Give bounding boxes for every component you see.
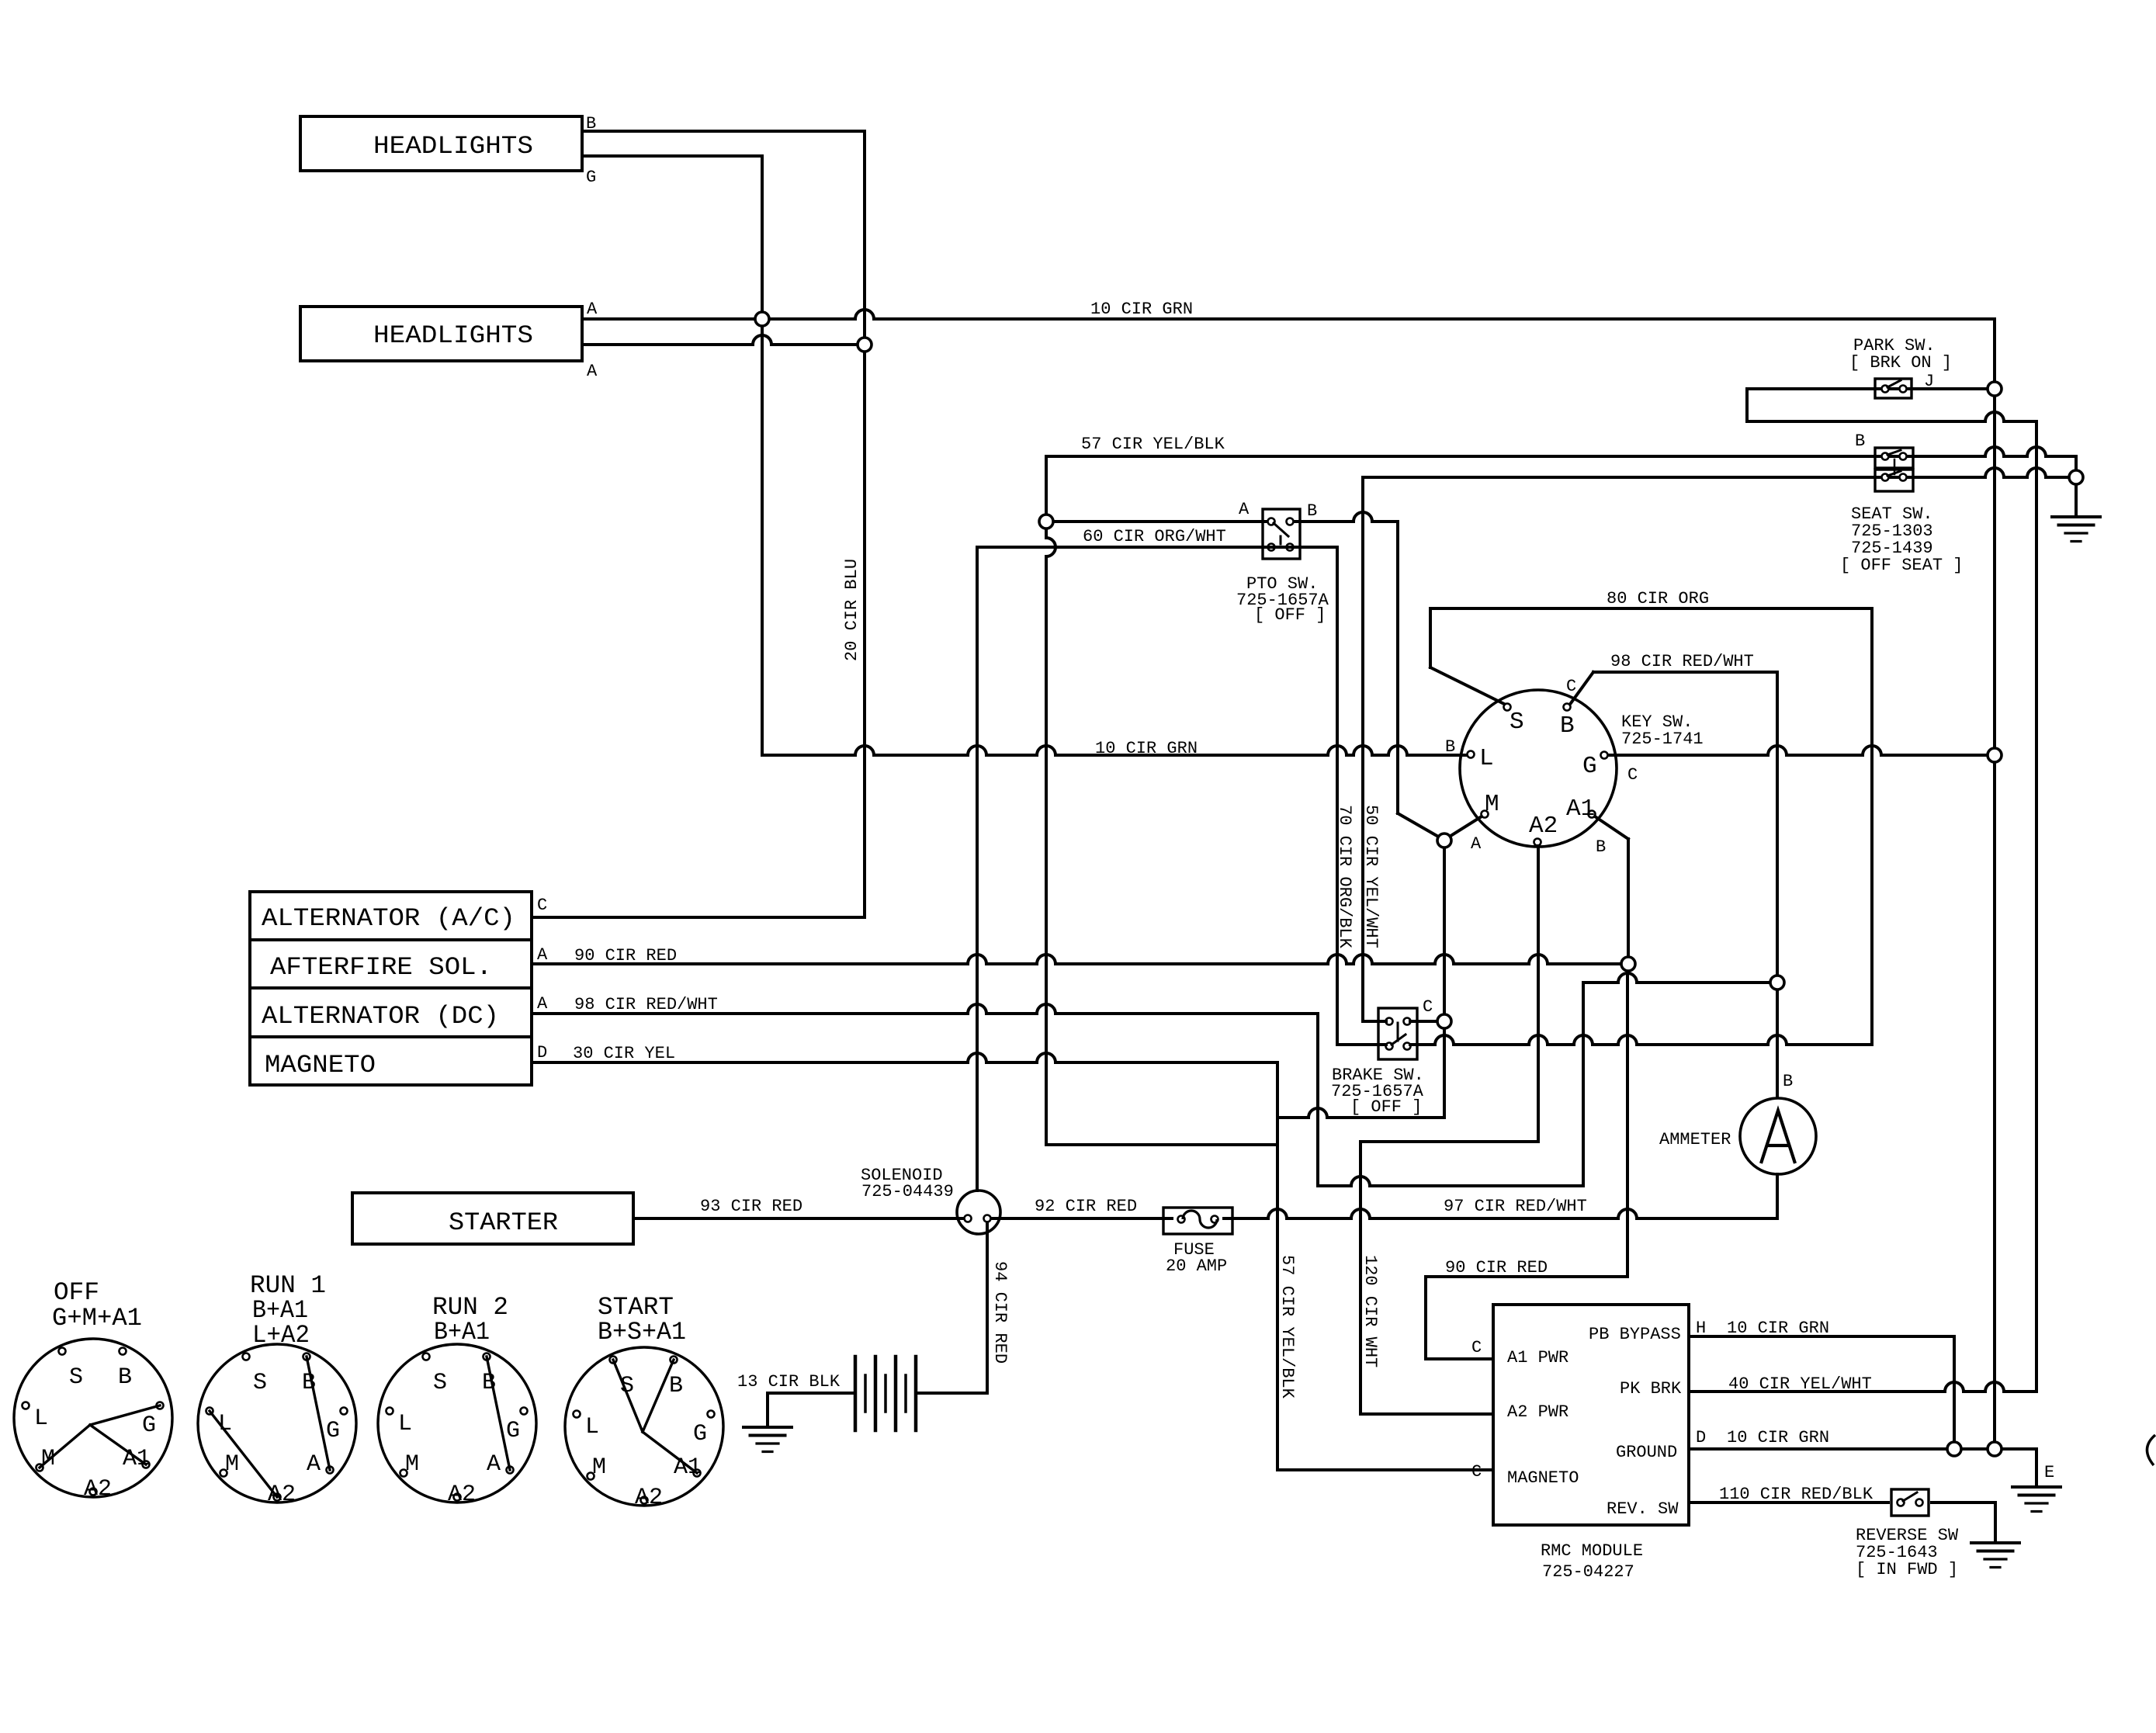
svg-text:L: L	[218, 1411, 232, 1437]
label OFF	[54, 1278, 99, 1307]
wire vertical park return to PK BRK 40 line	[2035, 421, 2038, 1392]
wire 90 CIR RED rmc elbow	[1426, 1277, 1493, 1359]
label B (PTO)	[1307, 501, 1317, 521]
label H	[1696, 1319, 1706, 1338]
svg-text:L: L	[585, 1414, 599, 1440]
svg-text:50 CIR YEL/WHT: 50 CIR YEL/WHT	[1361, 805, 1381, 948]
svg-text:S: S	[69, 1364, 83, 1391]
svg-text:G: G	[693, 1421, 707, 1447]
svg-text:120 CIR WHT: 120 CIR WHT	[1360, 1255, 1380, 1367]
svg-text:A: A	[487, 1451, 501, 1478]
svg-text:[ OFF ]: [ OFF ]	[1254, 605, 1326, 625]
wire A2 elbow	[1360, 1140, 1538, 1143]
wire 57 vertical drop to junction	[1046, 456, 1055, 1145]
svg-text:OFF: OFF	[54, 1278, 99, 1307]
label 725-1303	[1851, 522, 1933, 541]
label 725-04439	[861, 1182, 954, 1201]
fuse FUSE 20 AMP	[1163, 1208, 1232, 1234]
wire brake 70 elbow	[1337, 1043, 1386, 1046]
label 90 CIR RED (rmc)	[1445, 1258, 1548, 1277]
svg-text:97 CIR RED/WHT: 97 CIR RED/WHT	[1444, 1197, 1587, 1216]
svg-text:A: A	[1239, 500, 1250, 519]
label 90 CIR RED	[574, 946, 677, 965]
label SEAT SW.	[1851, 504, 1933, 524]
svg-text:ALTERNATOR (A/C): ALTERNATOR (A/C)	[262, 904, 515, 933]
svg-text:L: L	[398, 1411, 412, 1437]
label A (PTO)	[1239, 500, 1250, 519]
wire A1 diagonal and drop	[1595, 816, 1628, 964]
svg-text:B: B	[1307, 501, 1317, 521]
wire headlights1 G to vertical	[582, 154, 762, 158]
svg-text:G: G	[506, 1418, 520, 1444]
svg-text:J: J	[1924, 372, 1934, 391]
label J	[1924, 372, 1934, 391]
svg-text:90 CIR RED: 90 CIR RED	[1445, 1258, 1548, 1277]
svg-text:L: L	[34, 1405, 48, 1432]
label C (above B)	[1566, 677, 1576, 696]
node connector ground 2	[1988, 1442, 2002, 1456]
ammeter circle	[1740, 1098, 1816, 1174]
svg-text:M: M	[592, 1454, 606, 1481]
wire PTO B to vertical	[1293, 512, 1398, 522]
node connector seat ground	[2069, 470, 2083, 484]
label B (key)	[1560, 712, 1575, 740]
label [ IN FWD ]	[1856, 1560, 1958, 1579]
svg-text:13 CIR BLK: 13 CIR BLK	[737, 1372, 841, 1392]
ground symbol (E)	[2012, 1487, 2061, 1512]
label 94 CIR RED	[990, 1261, 1010, 1364]
wire 98 CIR RED/WHT top	[1571, 672, 1777, 703]
label PK BRK	[1620, 1379, 1682, 1399]
svg-text:80 CIR ORG: 80 CIR ORG	[1607, 589, 1709, 608]
wire reverse to ground	[1932, 1503, 1995, 1543]
wire 70 CIR ORG/BLK vertical	[1336, 547, 1339, 1045]
svg-text:G: G	[1582, 753, 1597, 780]
svg-text:10 CIR GRN: 10 CIR GRN	[1095, 739, 1198, 758]
label 80 CIR ORG	[1607, 589, 1709, 608]
label L (key)	[1479, 745, 1494, 772]
label C (right of G)	[1627, 765, 1638, 785]
svg-text:B: B	[1560, 712, 1575, 740]
wire 50 CIR YEL/WHT vertical	[1361, 477, 1364, 1021]
svg-text:MAGNETO: MAGNETO	[1507, 1468, 1579, 1488]
label B+A1 (run2)	[434, 1318, 490, 1347]
wire A2 vertical	[1537, 846, 1540, 1142]
ground symbol (battery)	[744, 1427, 792, 1452]
label 120 CIR WHT	[1360, 1255, 1380, 1367]
key position OFF G+M+A1	[14, 1339, 172, 1503]
label 20 CIR BLU	[842, 559, 861, 661]
svg-text:[ OFF ]: [ OFF ]	[1350, 1097, 1422, 1117]
wire seat right elbow	[2075, 456, 2078, 470]
label 725-1741	[1621, 730, 1704, 749]
label 98 CIR RED/WHT (key)	[1610, 652, 1754, 671]
svg-text:B: B	[118, 1364, 132, 1391]
svg-text:L+A2: L+A2	[252, 1321, 310, 1350]
svg-text:A1: A1	[674, 1454, 702, 1481]
svg-text:B: B	[1596, 837, 1606, 857]
svg-text:G+M+A1: G+M+A1	[52, 1304, 142, 1333]
svg-text:B: B	[302, 1370, 316, 1396]
wire park return elbow	[1745, 389, 1749, 421]
label [ OFF SEAT ]	[1840, 556, 1963, 575]
wire park return horizontal	[1747, 412, 2036, 421]
svg-text:C: C	[1471, 1462, 1482, 1482]
wire 10 CIR GRN lower right run	[1607, 746, 1995, 755]
seat switch SEAT SW. box upper	[1875, 448, 1913, 468]
label PB BYPASS	[1589, 1325, 1681, 1344]
svg-text:C: C	[1423, 997, 1433, 1017]
wire E ground drop	[2035, 1449, 2038, 1487]
label AFTERFIRE SOL.	[270, 953, 492, 982]
reverse switch REVERSE SW 725-1643	[1891, 1489, 1929, 1516]
label B (ammeter)	[1783, 1072, 1793, 1091]
label MAGNETO (engine)	[265, 1051, 376, 1080]
key position RUN 2	[378, 1344, 536, 1508]
key switch KEY SW. 725-1741 circle	[1460, 690, 1617, 847]
wire 60 to solenoid vertical	[976, 547, 979, 1191]
wire headlights2 lower A	[582, 335, 865, 345]
svg-text:MAGNETO: MAGNETO	[265, 1051, 376, 1080]
label L+A2	[252, 1321, 310, 1350]
wire 10 CIR GRN upper run	[582, 310, 1995, 319]
svg-text:A2: A2	[1529, 813, 1558, 840]
wire PTO A feed	[1053, 520, 1268, 523]
label 10 CIR GRN (H)	[1727, 1319, 1829, 1338]
wire 90 CIR RED rmc upper	[1426, 1275, 1627, 1278]
wire STARTER to solenoid 93 CIR RED	[633, 1217, 965, 1220]
label RUN 1	[250, 1271, 326, 1300]
key position RUN 1	[198, 1344, 356, 1508]
svg-text:10 CIR GRN: 10 CIR GRN	[1727, 1428, 1829, 1447]
svg-text:AFTERFIRE SOL.: AFTERFIRE SOL.	[270, 953, 492, 982]
svg-text:98 CIR RED/WHT: 98 CIR RED/WHT	[574, 995, 718, 1014]
partial connector arc at right edge	[2147, 1435, 2155, 1465]
wire seat return 50 CIR YEL/WHT horizontal	[1363, 468, 2076, 477]
wire fuse to ammeter 97 CIR RED/WHT	[1224, 1209, 1777, 1218]
label C (alt ac)	[537, 896, 547, 915]
wire 94 CIR RED vertical	[986, 1222, 989, 1393]
svg-text:30 CIR YEL: 30 CIR YEL	[573, 1044, 675, 1063]
wire brake output line	[1410, 1035, 1872, 1045]
wire M diagonal	[1448, 816, 1482, 837]
svg-text:B: B	[1855, 432, 1865, 451]
label B (below A1)	[1596, 837, 1606, 857]
wire PK BRK 40 CIR YEL/WHT	[1689, 1382, 2036, 1392]
label REV. SW	[1607, 1499, 1679, 1519]
wire PB BYPASS H 10 CIR GRN	[1689, 1335, 1954, 1338]
label 30 CIR YEL	[573, 1044, 675, 1063]
wire green vertical from G	[761, 156, 764, 755]
wire 98 elbow down	[1316, 1014, 1319, 1186]
svg-text:H: H	[1696, 1319, 1706, 1338]
label 725-1439	[1851, 539, 1933, 558]
label [ OFF ] (brake)	[1350, 1097, 1422, 1117]
svg-text:PB BYPASS: PB BYPASS	[1589, 1325, 1681, 1344]
label C (magneto rmc)	[1471, 1462, 1482, 1482]
label 57 CIR YEL/BLK vertical	[1277, 1255, 1297, 1399]
svg-text:A2: A2	[268, 1482, 296, 1508]
wire brake top right to connector	[1410, 1020, 1437, 1023]
wire 98 link upper	[1583, 973, 1777, 983]
label A1 PWR	[1507, 1348, 1568, 1367]
pto switch PTO SW. 725-1657A	[1263, 509, 1300, 559]
svg-text:725-04227: 725-04227	[1542, 1562, 1634, 1582]
svg-text:M: M	[1485, 791, 1499, 818]
label B+A1 (run1)	[252, 1296, 308, 1325]
svg-text:40 CIR YEL/WHT: 40 CIR YEL/WHT	[1728, 1374, 1872, 1394]
pin label B (headlights 1)	[586, 114, 596, 133]
label A2 (key)	[1529, 813, 1558, 840]
label PARK SW.	[1853, 336, 1936, 355]
svg-text:ALTERNATOR (DC): ALTERNATOR (DC)	[262, 1002, 499, 1031]
label S (key)	[1510, 709, 1524, 736]
svg-text:[ IN FWD ]: [ IN FWD ]	[1856, 1560, 1958, 1579]
label RUN 2	[432, 1293, 508, 1322]
node connector park right	[1988, 382, 2002, 396]
wire battery to solenoid	[916, 1392, 987, 1395]
battery cells	[855, 1357, 916, 1430]
label BRAKE SW.	[1332, 1066, 1424, 1085]
svg-text:C: C	[1566, 677, 1576, 696]
svg-text:C: C	[1627, 765, 1638, 785]
svg-text:10 CIR GRN: 10 CIR GRN	[1727, 1319, 1829, 1338]
node connector 90 CIR RED	[1621, 957, 1635, 971]
svg-text:B: B	[1783, 1072, 1793, 1091]
ground symbol (reverse)	[1971, 1543, 2019, 1568]
node connector brake right	[1437, 1014, 1451, 1028]
label B (seat)	[1855, 432, 1865, 451]
svg-text:57 CIR YEL/BLK: 57 CIR YEL/BLK	[1277, 1255, 1297, 1399]
svg-text:B: B	[482, 1370, 496, 1396]
label START	[598, 1293, 674, 1322]
label [ BRK ON ]	[1849, 353, 1952, 373]
svg-text:A2: A2	[448, 1482, 476, 1508]
svg-text:GROUND: GROUND	[1616, 1443, 1677, 1462]
label 50 CIR YEL/WHT	[1361, 805, 1381, 948]
key position START B+S+A1	[565, 1347, 723, 1511]
pin label G (headlights 1)	[586, 168, 596, 187]
svg-text:60 CIR ORG/WHT: 60 CIR ORG/WHT	[1083, 527, 1226, 546]
svg-text:D: D	[1696, 1428, 1706, 1447]
label C (brake)	[1423, 997, 1433, 1017]
label A1 (key)	[1566, 795, 1595, 823]
svg-text:A: A	[537, 945, 548, 965]
wire 80 left elbow to S	[1430, 608, 1504, 704]
svg-text:110 CIR RED/BLK: 110 CIR RED/BLK	[1719, 1485, 1874, 1504]
node connector M junction	[1437, 834, 1451, 847]
pin label A (headlights 2 bottom)	[587, 362, 598, 381]
svg-text:G: G	[586, 168, 596, 187]
label AMMETER	[1659, 1130, 1731, 1149]
wire 98 link vertical	[1582, 983, 1585, 1186]
label GROUND	[1616, 1443, 1677, 1462]
svg-text:A: A	[307, 1451, 321, 1478]
node connector lower A to 20 CIR BLU	[858, 338, 872, 352]
wire 80 CIR ORG top	[1430, 607, 1872, 610]
label B+S+A1	[598, 1318, 686, 1347]
svg-text:S: S	[433, 1370, 447, 1396]
svg-text:A1: A1	[123, 1446, 151, 1472]
wire magneto stub to brake	[1277, 1108, 1444, 1118]
svg-text:D: D	[537, 1043, 547, 1062]
node connector on 10 CIR GRN at green vertical	[755, 312, 769, 326]
label 92 CIR RED	[1035, 1197, 1137, 1216]
headlights lamp block 2	[300, 307, 582, 361]
label D (magneto)	[537, 1043, 547, 1062]
label E	[2044, 1463, 2054, 1482]
node connector ground 1	[1947, 1442, 1961, 1456]
svg-text:B+A1: B+A1	[434, 1318, 490, 1347]
svg-text:L: L	[1479, 745, 1494, 772]
svg-text:20 AMP: 20 AMP	[1166, 1256, 1227, 1276]
wire 90 CIR RED line	[532, 955, 1621, 964]
svg-text:PK BRK: PK BRK	[1620, 1379, 1682, 1399]
node connector 10 GRN right	[1988, 748, 2002, 762]
label FUSE	[1173, 1240, 1215, 1260]
wire 98 CIR RED/WHT line	[532, 1004, 1318, 1014]
label B (left of L)	[1445, 737, 1455, 757]
label D (ground)	[1696, 1428, 1706, 1447]
wire A2 PWR feed	[1360, 1412, 1493, 1416]
label 725-04227	[1542, 1562, 1634, 1582]
wire 20 CIR BLU vertical	[863, 131, 866, 917]
svg-text:725-04439: 725-04439	[861, 1182, 954, 1201]
svg-text:A1: A1	[1566, 795, 1595, 823]
label A (afterfire)	[537, 945, 548, 965]
wire MAGNETO feed	[1277, 1468, 1493, 1471]
pin label A (headlights 2 top)	[587, 300, 598, 319]
svg-text:G: G	[142, 1412, 156, 1439]
wire 80 right vertical	[1870, 608, 1874, 1045]
label C (a1 pwr)	[1471, 1338, 1482, 1357]
svg-text:S: S	[253, 1370, 267, 1396]
label SOLENOID	[861, 1166, 943, 1185]
wire alternator AC C line	[532, 916, 865, 919]
svg-text:S: S	[620, 1373, 634, 1399]
svg-text:REV. SW: REV. SW	[1607, 1499, 1679, 1519]
seat switch box lower	[1875, 459, 1913, 491]
park switch PARK SW. [BRK ON]	[1875, 379, 1912, 398]
wire solenoid to fuse 92 CIR RED	[991, 1217, 1172, 1220]
wire REV SW 110 CIR RED/BLK	[1689, 1501, 1888, 1504]
svg-text:[ BRK ON ]: [ BRK ON ]	[1849, 353, 1952, 373]
svg-text:98 CIR RED/WHT: 98 CIR RED/WHT	[1610, 652, 1754, 671]
label 725-1657A	[1236, 591, 1329, 610]
svg-text:HEADLIGHTS: HEADLIGHTS	[373, 321, 533, 350]
wire PB bypass vertical	[1953, 1336, 1956, 1449]
label REVERSE SW	[1856, 1526, 1959, 1545]
wire 10 CIR GRN lower left run	[762, 746, 1468, 755]
label 57 CIR YEL/BLK	[1081, 435, 1225, 454]
label ALTERNATOR (DC)	[262, 1002, 499, 1031]
wire 57 to A2 link horizontal	[1048, 1143, 1277, 1146]
svg-text:AMMETER: AMMETER	[1659, 1130, 1731, 1149]
svg-text:A2 PWR: A2 PWR	[1507, 1402, 1568, 1422]
label 70 CIR ORG/BLK	[1335, 805, 1354, 949]
svg-text:725-1741: 725-1741	[1621, 730, 1704, 749]
label RMC MODULE	[1541, 1541, 1643, 1561]
wire PTO-B vertical drop	[1398, 522, 1440, 837]
wire headlights1 B to 20 CIR BLU vertical	[582, 130, 865, 133]
label KEY SW.	[1621, 712, 1693, 732]
svg-text:A: A	[587, 300, 598, 319]
svg-text:92 CIR RED: 92 CIR RED	[1035, 1197, 1137, 1216]
svg-text:RMC MODULE: RMC MODULE	[1541, 1541, 1643, 1561]
label [ OFF ] (PTO)	[1254, 605, 1326, 625]
node connector 98/ammeter	[1770, 976, 1784, 990]
svg-text:HEADLIGHTS: HEADLIGHTS	[373, 132, 533, 161]
svg-text:B: B	[1445, 737, 1455, 757]
label 93 CIR RED	[700, 1197, 802, 1216]
wire brake feed elbow	[1363, 1020, 1386, 1023]
svg-text:STARTER: STARTER	[449, 1208, 558, 1237]
svg-text:B: B	[669, 1373, 683, 1399]
svg-text:A: A	[537, 994, 548, 1014]
wire M junction vertical	[1443, 847, 1446, 1118]
label 13 CIR BLK	[737, 1372, 841, 1392]
svg-text:93 CIR RED: 93 CIR RED	[700, 1197, 802, 1216]
label PTO SW.	[1246, 574, 1318, 594]
starter block STARTER	[352, 1193, 633, 1244]
svg-text:70 CIR ORG/BLK: 70 CIR ORG/BLK	[1335, 805, 1354, 949]
wire 98 vertical to ammeter	[1776, 672, 1779, 1097]
svg-text:A: A	[1471, 834, 1482, 854]
headlights lamp block 1	[300, 116, 582, 171]
label 60 CIR ORG/WHT	[1083, 527, 1226, 546]
svg-text:A2: A2	[635, 1485, 663, 1511]
label 10 CIR GRN lower	[1095, 739, 1198, 758]
label 98 CIR RED/WHT (alt dc)	[574, 995, 718, 1014]
label 725-1657A (brake)	[1331, 1082, 1424, 1101]
svg-text:[ OFF SEAT ]: [ OFF SEAT ]	[1840, 556, 1963, 575]
wire battery ground stub	[766, 1393, 769, 1427]
svg-text:A: A	[587, 362, 598, 381]
wire 98 link lower	[1318, 1177, 1583, 1186]
label 20 AMP	[1166, 1256, 1227, 1276]
svg-text:M: M	[405, 1451, 419, 1478]
svg-text:C: C	[1471, 1338, 1482, 1357]
label 10 CIR GRN upper	[1090, 300, 1193, 319]
label MAGNETO (rmc)	[1507, 1468, 1579, 1488]
wire 60 CIR ORG/WHT horizontal	[977, 546, 1337, 549]
svg-text:57 CIR YEL/BLK: 57 CIR YEL/BLK	[1081, 435, 1225, 454]
label A (below M)	[1471, 834, 1482, 854]
label ALTERNATOR (A/C)	[262, 904, 515, 933]
svg-text:M: M	[41, 1446, 55, 1472]
svg-text:G: G	[326, 1418, 340, 1444]
svg-text:20 CIR BLU: 20 CIR BLU	[842, 559, 861, 661]
svg-text:C: C	[537, 896, 547, 915]
node connector on 57 drop	[1039, 515, 1053, 529]
ground symbol (seat)	[2052, 517, 2100, 542]
wire park feed	[1747, 387, 1988, 390]
svg-text:10 CIR GRN: 10 CIR GRN	[1090, 300, 1193, 319]
svg-text:94 CIR RED: 94 CIR RED	[990, 1261, 1010, 1364]
solenoid circle 725-04439	[957, 1191, 1000, 1234]
wire 120 CIR WHT vertical	[1359, 1142, 1362, 1414]
wire 57 CIR YEL/BLK horizontal	[1046, 447, 2076, 456]
wire 13 CIR BLK	[768, 1392, 855, 1395]
label 40 CIR YEL/WHT	[1728, 1374, 1872, 1394]
label 97 CIR RED/WHT	[1444, 1197, 1587, 1216]
svg-text:A1 PWR: A1 PWR	[1507, 1348, 1568, 1367]
label 725-1643	[1856, 1543, 1938, 1562]
wire 30 CIR YEL line	[532, 1053, 1277, 1062]
label M (key)	[1485, 791, 1499, 818]
wire seat ground stub	[2075, 484, 2078, 517]
label 10 CIR GRN (D)	[1727, 1428, 1829, 1447]
